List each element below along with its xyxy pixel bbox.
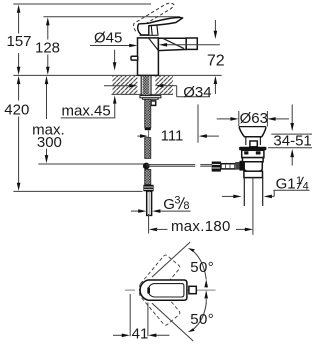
counter deck hatched slab	[112, 76, 174, 95]
threaded sleeve	[221, 164, 240, 169]
dim 420 vertical line	[17, 76, 21, 191]
dim Ø45 left arrow	[90, 44, 137, 48]
drain bottom box	[244, 171, 263, 177]
dim 72 bottom arrow	[214, 76, 218, 94]
dim max.300 vertical line	[45, 76, 49, 163]
dim G3/8	[131, 209, 191, 213]
svg-text:157: 157	[6, 33, 31, 50]
drain pop-up waste bell	[239, 127, 266, 137]
svg-text:G: G	[163, 196, 175, 213]
top view lever pin	[147, 287, 150, 294]
svg-text:50°: 50°	[190, 311, 214, 328]
drain upper body with screws	[242, 150, 264, 157]
top view centreline left stub	[125, 289, 135, 291]
top view faucet outer body	[140, 280, 187, 300]
svg-text:Ø45: Ø45	[94, 30, 122, 47]
wire reference line 128 level	[43, 16, 180, 18]
dim 157 vertical line	[17, 5, 21, 75]
faucet threaded shank through deck	[141, 76, 151, 96]
drain tailpipe	[244, 178, 262, 235]
faucet body internal diagonal	[149, 38, 159, 50]
hose inner line in break	[148, 130, 150, 137]
wire 420 bottom reference line	[13, 190, 142, 192]
faucet lever solid	[151, 25, 158, 35]
dim Ø34 arrows at deck hole	[104, 84, 210, 97]
pop-up rod horizontal	[146, 165, 211, 167]
svg-text:max.45: max.45	[62, 103, 111, 120]
svg-text:420: 420	[4, 102, 29, 119]
faucet lever raised dashed	[134, 3, 174, 31]
pop-up rod guide block	[151, 101, 156, 106]
dim 111	[137, 104, 219, 142]
angle line lower 50	[152, 303, 193, 341]
svg-text:3: 3	[174, 195, 180, 207]
faucet aerator box	[186, 38, 197, 49]
rod clamp block	[212, 162, 221, 172]
supply hose segment A	[145, 99, 151, 130]
svg-text:50°: 50°	[190, 259, 214, 276]
svg-text:Ø34: Ø34	[183, 84, 211, 101]
svg-text:128: 128	[35, 39, 60, 56]
faucet left side tab	[131, 56, 138, 60]
svg-text:G1: G1	[276, 175, 296, 192]
drain seal flange (black)	[239, 147, 266, 151]
drain neck	[246, 137, 261, 145]
dim 34-51	[268, 105, 312, 166]
faucet spout internal taper line	[163, 38, 184, 48]
wire top reference line 157 level	[13, 3, 151, 5]
top view dashed swivel position upper	[135, 254, 181, 303]
supply hose segment B	[145, 138, 151, 159]
angle arc upper	[188, 248, 208, 287]
svg-text:Ø63: Ø63	[240, 110, 268, 127]
wire deck top reference line	[13, 74, 221, 76]
drain lift knob	[250, 141, 257, 147]
dim 128 vertical line	[46, 17, 50, 75]
drain side inlet joint	[235, 161, 244, 171]
svg-text:111: 111	[161, 128, 184, 145]
drain lower body	[244, 162, 262, 171]
svg-text:max.180: max.180	[171, 218, 231, 235]
hose end fitting nut	[143, 185, 153, 192]
faucet body column	[138, 38, 159, 76]
angle arc lower	[188, 290, 208, 332]
dim max.180	[149, 214, 253, 234]
top view inner outline	[148, 284, 184, 297]
dim max.45 top arrow (above deck)	[113, 50, 117, 71]
hose junction dot	[143, 163, 150, 170]
top view centreline right stub	[187, 289, 216, 291]
top view dashed swivel position lower	[135, 277, 181, 326]
dim 72 top arrow	[214, 20, 218, 39]
drain mid section	[243, 158, 264, 162]
faucet spout cone	[158, 38, 186, 50]
svg-text:300: 300	[37, 134, 62, 151]
hose connection tube G3/8	[147, 191, 152, 215]
svg-text:4: 4	[303, 180, 309, 192]
top view lever tip block	[189, 286, 196, 293]
dim G1 1/4	[222, 190, 310, 198]
dim Ø45 right arrow with long tail to 72 ref	[159, 43, 220, 47]
mounting washer under deck	[140, 96, 161, 98]
faucet cartridge cap line	[140, 34, 159, 36]
supply hose segment C	[145, 169, 151, 184]
svg-text:8: 8	[183, 200, 189, 212]
svg-text:72: 72	[207, 52, 225, 69]
svg-text:41: 41	[132, 325, 149, 342]
svg-text:34-51: 34-51	[273, 133, 311, 150]
dim Ø63	[217, 111, 289, 127]
angle line upper 50	[152, 242, 190, 277]
dim 41	[113, 294, 170, 337]
wire max300 bottom reference line	[38, 163, 146, 165]
dim max.45 bottom arrow (below deck)	[113, 95, 117, 118]
